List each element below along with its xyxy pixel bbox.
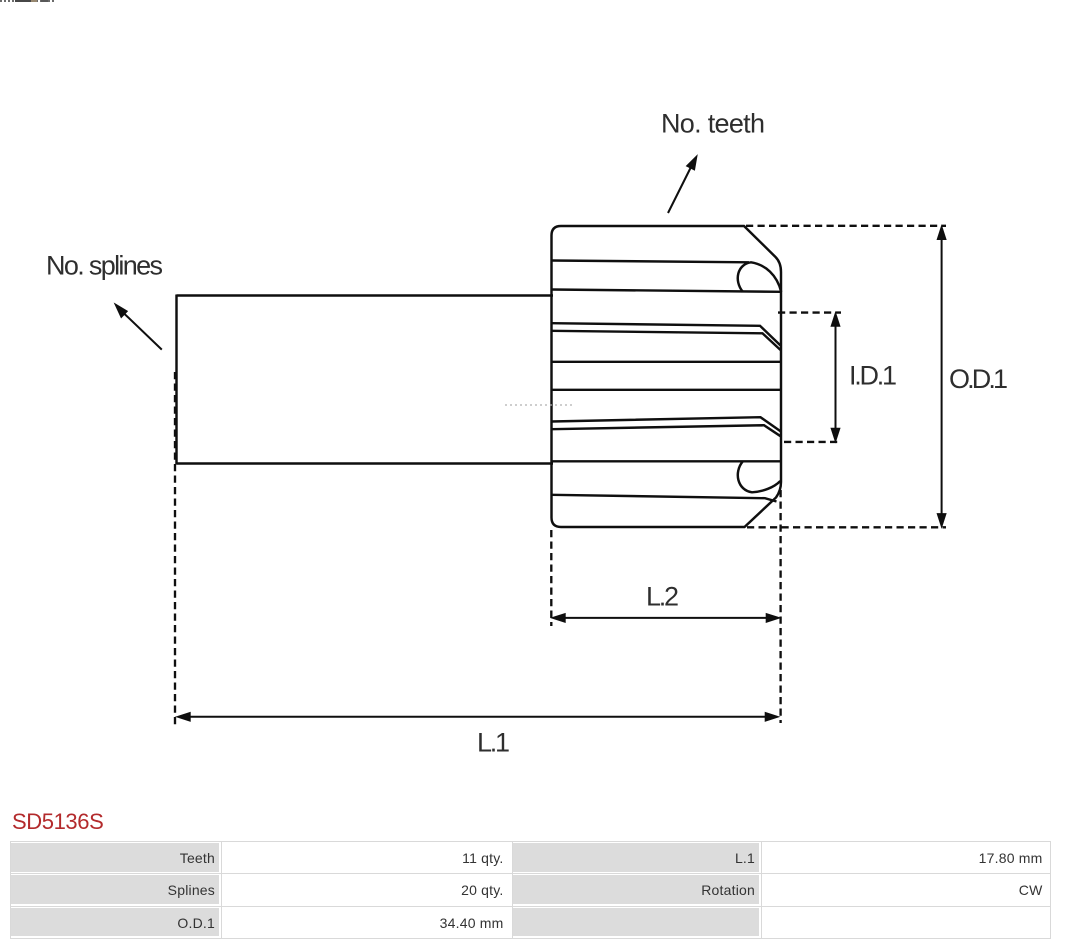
L.1 dimension arrow line — [188, 716, 767, 718]
row 2 texts — [168, 883, 215, 897]
leader arrow No. teeth — [668, 164, 693, 213]
O.D.1 dimension arrow line — [941, 237, 943, 516]
gear tooth line D — [552, 361, 782, 363]
gray label cells — [11, 843, 220, 872]
table grid vertical lines — [10, 841, 11, 939]
spline groove wedge upper — [552, 323, 781, 350]
centerline (axis) dotted — [505, 404, 573, 406]
extension line L.2 left (dashed) — [550, 530, 552, 626]
shaft (splined shaft body) — [177, 295, 554, 465]
row 3 texts — [177, 916, 215, 930]
gear tooth line E — [552, 389, 782, 391]
extension line I.D.1 bottom (dashed) — [784, 441, 840, 443]
I.D.1 dimension arrow line — [835, 323, 837, 431]
gear tooth line A — [552, 261, 750, 263]
extension line O.D.1 bottom (dashed) — [747, 526, 946, 528]
gear tooth line B — [552, 290, 782, 292]
spline groove wedge lower — [552, 417, 781, 436]
top-left clipped logo remnant — [0, 0, 56, 2]
tooth end dome top — [738, 262, 781, 292]
gear tooth line G — [552, 460, 782, 462]
part number heading SD5136S — [12, 809, 103, 835]
leader arrow No. splines — [122, 312, 162, 350]
extension line O.D.1 top (dashed) — [746, 225, 946, 227]
extension line right shared L.1/L.2 (dashed) — [779, 490, 781, 723]
extension line L.1 left (dashed) — [174, 372, 176, 727]
tooth end dome bottom — [738, 461, 781, 492]
extension line I.D.1 top (dashed) — [778, 311, 841, 313]
gear tooth line H — [552, 495, 777, 502]
pinion gear outline — [552, 226, 782, 527]
row 1 texts — [180, 851, 215, 865]
table grid horizontal lines — [10, 841, 1051, 842]
L.2 dimension arrow line — [563, 617, 768, 619]
